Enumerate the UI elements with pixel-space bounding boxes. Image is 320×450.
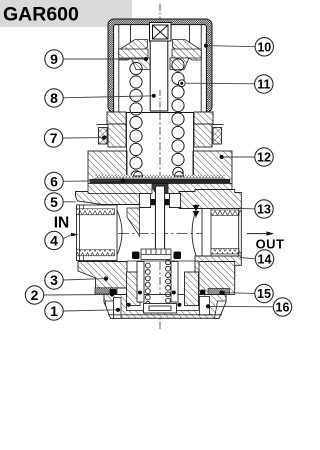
diaphragm washer serration band [95,175,225,179]
o-ring black right outer [220,291,226,299]
center line vertical top [159,4,161,20]
svg-text:GAR600: GAR600 [3,4,79,26]
body top flange right / out fitting top [179,190,241,209]
center line vertical main [159,52,161,329]
svg-text:1: 1 [50,303,58,319]
valve seat black seal left [132,252,140,260]
adjusting screw head box with X [150,23,172,42]
OUT fitting bottom wall [195,256,241,278]
leader 8 [63,96,154,98]
cap bottom line [108,314,222,316]
bonnet wall right [194,124,212,147]
leader 11 [185,82,254,85]
leader 10 [206,46,255,47]
cap cylinder wall left [127,272,141,306]
callout numbers [31,51,59,319]
callout circles [25,38,291,321]
svg-text:9: 9 [50,51,58,67]
leader 14 [240,258,255,259]
center line horizontal port axis [79,233,240,235]
knob cone hatched right [173,40,202,61]
svg-text:IN: IN [54,215,70,232]
IN port bore [77,205,123,261]
svg-text:11: 11 [257,78,270,92]
bonnet flange right [193,151,232,184]
relief detail [193,204,200,218]
spring button dome left [134,172,143,177]
stem o-ring right [165,199,170,205]
knob cone hatched left [119,40,148,61]
svg-text:15: 15 [257,287,271,301]
chamber floor line [127,260,199,262]
bottom cap [104,295,226,319]
knob inner wall lines [119,25,201,112]
bonnet ledge left [97,124,109,126]
cap plug [144,304,177,314]
o-ring black left [110,289,117,296]
leader 15 [222,292,255,295]
cap hex facet left [106,301,114,318]
valve seat black seal right [174,252,182,260]
body bottom flange right [199,262,235,295]
bonnet ledge right [212,124,224,126]
leader lines [44,46,274,311]
leader 16 [208,305,273,307]
cap seal dot left [127,303,131,307]
leader 13 [240,208,255,210]
svg-text:16: 16 [276,301,290,315]
svg-text:6: 6 [50,174,58,190]
valve stem [155,186,164,254]
leader 12 [222,156,255,158]
main spring left coil column [130,62,142,181]
gasket strip right [208,289,230,295]
svg-text:14: 14 [258,253,272,267]
spring button dome right [175,172,184,177]
leader 7 [63,137,104,139]
svg-text:13: 13 [257,203,271,217]
cap interior [127,295,200,311]
leader 4 [63,235,72,239]
diaphragm center clamp [150,184,177,194]
leader end dots [102,44,224,312]
leader 9 [63,58,146,60]
cap seal dot right [177,303,181,307]
cap hex slot right [200,297,210,316]
cage seal dot left [138,291,142,295]
OUT flow arrow [247,231,274,235]
cap hex slot left [114,298,122,319]
svg-text:7: 7 [50,130,58,146]
leader 6 [63,180,122,183]
stem o-ring left [151,199,156,205]
knob K1 outer knurled shell [108,19,212,113]
valve cage tube right [171,262,178,303]
knob seat band left [119,49,148,58]
cage seal dot right [172,291,176,295]
adjusting nut hatched left [131,58,150,70]
svg-text:8: 8 [50,90,58,106]
lower spring right column [166,260,171,303]
leader 1 [63,310,118,311]
leader 3 [63,279,106,280]
leader 5 [63,201,76,203]
bonnet flange left [88,151,127,184]
knob seat band right [172,49,201,58]
svg-text:12: 12 [257,151,271,165]
title GAR600 [0,0,132,27]
adjusting screw shank [150,41,168,111]
svg-text:3: 3 [50,272,58,288]
valve seat plate [141,249,171,260]
bonnet neck right [194,112,213,124]
valve cage tube left [137,262,144,303]
locknut tab left [99,128,108,145]
OUT bore [202,209,241,257]
valve chamber walls [140,194,181,208]
svg-text:OUT: OUT [256,236,285,251]
body clamp ring left [88,184,152,194]
body clamp ring right [168,184,232,194]
leader 2 [44,294,112,297]
body bottom flange left [78,262,127,289]
bonnet inner wall lines [126,112,128,176]
diaphragm (dark) [90,179,230,183]
o-ring black right inner [200,290,206,297]
cap hex facet right [215,301,227,318]
svg-text:10: 10 [257,40,271,54]
locknut tab right [213,128,222,145]
svg-text:2: 2 [31,287,39,303]
svg-text:4: 4 [50,233,58,249]
spring pin symbol (leader 11 target) [178,80,185,87]
gasket strip left [95,288,117,294]
IN flow arrow [71,233,79,237]
bonnet wall left [108,124,126,147]
cap cylinder wall right [185,272,199,306]
bonnet neck left [107,112,126,124]
adjusting nut hatched right [170,58,189,70]
chamber arc right [192,209,197,258]
body top flange left [76,192,142,205]
main spring right coil column [172,59,184,178]
lower spring left column [145,263,150,306]
chamber wedge hatched left [127,208,140,236]
svg-text:5: 5 [50,194,58,210]
